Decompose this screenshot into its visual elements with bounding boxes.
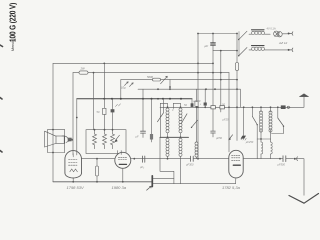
node mains-a [236,33,238,35]
wire V2 bottom lead [122,168,124,182]
tube V2 envelope [115,152,131,168]
wire lamp to terminal [282,33,287,35]
wire pot tap down [169,80,170,89]
switch S-band1 [157,113,163,122]
svg-text:µF50: µF50 [216,136,223,140]
svg-text:1782 5,3a: 1782 5,3a [222,185,241,190]
speaker LS [45,131,65,147]
terminal arc earth [296,157,299,161]
winding W2b [179,137,182,183]
coil L-mains-2 [249,46,264,51]
wire x143 from H4 [136,89,146,138]
wire H2 bus [73,72,229,74]
node mid-167 [167,136,169,138]
wire H5 bus (dark) [77,98,192,100]
wire A jack to x174 [153,177,174,179]
wire H1 top bus [53,62,213,64]
wire heater segment V1-V2 [82,158,115,160]
svg-text:4V 0,1A: 4V 0,1A [267,27,276,31]
winding W3a top [259,106,262,139]
wire bottom bus B [153,183,235,185]
capacitor C-heater inline [186,156,194,166]
resistor R-x196 (above bus) [195,89,198,108]
wire x220 down stub [220,109,222,112]
tube V3 grids [232,155,241,165]
svg-text:10µ: 10µ [121,86,126,90]
node terminal-1 [288,33,290,35]
node box-112 [112,129,114,131]
wire x76.8 drop [76,99,78,155]
node H4-x158 [157,88,159,90]
svg-text:µF500: µF500 [278,163,286,167]
tube V1 bottom [65,173,82,178]
node H4-x206 [205,88,207,90]
wire heater V3 to cap [243,158,282,160]
tube V2 grids [118,157,127,164]
electrolytic cap marks 10uF [121,82,133,90]
node midr-261 [260,138,262,140]
node mid-180 [180,136,182,138]
wire x151 from H5 [150,99,153,142]
wire H4 right corner down [239,89,241,107]
wire x93 from H2 [93,73,95,130]
lamp LP1 [267,27,283,37]
wire x252 stub [251,107,253,116]
speaker lead arc [62,136,68,139]
wire mains right vertical [236,34,238,51]
wire coil bus [160,106,291,108]
wire mid bus [160,136,189,138]
wire V2 top leads [118,151,122,155]
node HT-107 [197,106,199,108]
svg-text:5000: 5000 [147,75,153,79]
node x243 [243,106,245,108]
svg-text:Mende: Mende [11,39,15,51]
terminal circle antenna [287,106,289,108]
winding W1b [179,106,182,137]
wire to earth [296,159,304,196]
wire x257 to heater [256,139,258,159]
terminal plug 2 [290,48,293,52]
wire x243 ground drop [243,107,245,135]
wire busB to tube V3 [235,178,237,184]
resistor R-k1 vertical [95,158,98,183]
node H3-x236 [236,79,238,81]
title [8,2,18,51]
svg-text:µF: µF [136,135,139,139]
winding W2a [166,137,169,159]
node box-104 [104,129,106,131]
capacitor pickup block [140,156,145,169]
node H4-x236 [236,88,238,90]
output transformer core [68,138,72,142]
node HT-158 [197,158,199,160]
wire tap to H2 [220,51,222,108]
wire HT drop from mains [197,34,199,64]
switch S-r1 [252,117,258,140]
switch arrow above tube V3 [228,135,232,141]
wire antenna lead [290,97,305,108]
switch S1a [238,31,247,40]
wire mains top [198,33,237,35]
coil L-mains-1 [249,30,270,35]
resistor R-line (inline H2) [79,66,88,74]
winding W3b top [269,106,272,139]
node H1-x198 [197,63,199,65]
node H3-x221 [220,79,222,81]
wire heater V2 to V3 [193,158,229,160]
winding W2c [195,107,198,158]
node V2-bus [122,181,124,183]
svg-text:AZ 12: AZ 12 [278,41,288,45]
wire coil2 to terminal [264,49,287,51]
antenna symbol [300,94,309,97]
svg-text:µ4000: µ4000 [193,99,201,103]
node box-94 [94,129,96,131]
capacitor C-earth inline [278,156,286,167]
wire x229 vertical [228,73,230,152]
wire H1-H2 corner [212,63,214,72]
svg-text:µF₂: µF₂ [140,165,144,169]
wire H5 right corner down [191,99,193,108]
tube V3 envelope [229,150,243,178]
transformer arrow [66,139,73,143]
resistor zigzag Z1 [93,130,97,149]
svg-text:µF25: µF25 [223,118,230,122]
tiny labels coil row [172,99,229,140]
node spk-top [52,129,54,131]
svg-text:µF250: µF250 [246,140,254,144]
wire mains bottom [213,50,237,52]
earth symbol [289,194,319,204]
node terminal-earth [294,158,296,160]
svg-text:²: ² [200,104,201,107]
svg-text:µF: µF [205,44,209,48]
svg-text:100 G (220 V): 100 G (220 V) [8,2,18,42]
svg-text:1798 53V: 1798 53V [67,185,84,190]
resistor zigzag Z3 (with wiper arrow) [111,130,120,149]
node H1-x104 [103,63,105,65]
capacitor C-x205 (dark, above bus) [204,103,207,109]
winding W1a [166,106,169,137]
wire x213 down [211,109,216,137]
wire H3 left corner down [120,80,122,99]
speaker frame rect [48,130,65,153]
wire x204 vertical [204,89,206,107]
node x213-72 [212,72,214,74]
node heater-280 [279,158,281,160]
wire left rail [52,63,54,181]
wire HT rail x198 [197,63,199,158]
capacitor C-mains [205,34,216,64]
node terminal-2 [288,49,290,51]
winding W4a bottom [261,139,263,159]
chassis ground flag [241,136,254,144]
wire x160 extension down [160,137,174,183]
node spk-bot [52,152,54,154]
resistor R-vol (inline H3) [147,75,161,81]
wire x104 from H1 with resistor [97,63,107,129]
svg-text:1980 3a: 1980 3a [112,185,127,190]
wire cap to terminal [286,158,294,160]
capacitor x112 (dark block) [111,99,121,130]
switch S-band1b [182,114,188,123]
wire bottom bus left [53,181,152,183]
potentiometer arrow [161,76,168,84]
switch S-r2 [272,106,285,133]
resistor zigzag Z2 [103,130,107,149]
wire switch feed x163 [162,99,164,113]
box bandfilter [86,130,126,154]
switch linkage [238,32,240,57]
node mains-b [236,50,238,52]
wire tube V1 bottom lead [72,178,74,182]
wire heater segment V2-right [131,158,191,160]
svg-text:2W: 2W [80,66,86,70]
node HT-72 [197,72,199,74]
bracket2 x173-180 [173,103,180,108]
switch S1b [238,48,247,57]
switch S-band2 [191,120,198,128]
resistor R-ant inline bus (dark) [281,105,286,109]
node V1-bus [72,181,74,183]
wire H4 bus [138,88,240,90]
bracket x160-167 [160,103,167,137]
terminal plug 1 [290,32,293,36]
tube V1 envelope [65,151,82,173]
wire x213 vertical lower [212,73,214,108]
tube V1 grids [69,154,78,172]
winding W4b bottom [271,139,273,159]
wire x73 drop through tube top [72,73,74,155]
wire mid right connect [257,138,270,140]
scan artifacts left edge [0,45,3,152]
resistor R-screen vertical on x236 [235,51,238,141]
node H5 dots [103,98,182,100]
svg-text:µF300: µF300 [186,163,194,167]
node H4-x215 [214,88,216,90]
pickup jack bar [147,176,153,190]
wire H3 bus [121,79,237,81]
node x252 [252,106,254,108]
